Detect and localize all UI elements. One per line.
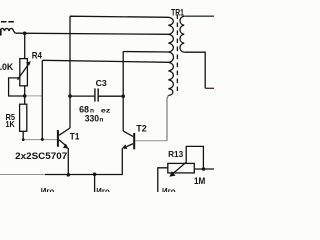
svg-text:R4: R4: [32, 51, 42, 61]
svg-text:1K: 1K: [6, 120, 15, 129]
svg-text:Иго: Иго: [96, 187, 110, 192]
svg-text:Иго: Иго: [41, 187, 55, 192]
svg-text:R13: R13: [168, 149, 183, 159]
svg-text:330: 330: [85, 113, 99, 123]
svg-text:C3: C3: [96, 78, 107, 88]
svg-text:ez: ez: [101, 108, 110, 115]
svg-text:1M: 1M: [194, 176, 205, 186]
svg-text:T1: T1: [70, 131, 80, 141]
svg-text:Иго: Иго: [162, 187, 176, 192]
svg-text:T2: T2: [136, 123, 146, 133]
svg-text:2x2SC5707: 2x2SC5707: [15, 151, 67, 161]
svg-text:1.0K: 1.0K: [0, 62, 14, 72]
svg-text:n: n: [99, 116, 103, 123]
svg-text:TR1: TR1: [171, 7, 184, 17]
